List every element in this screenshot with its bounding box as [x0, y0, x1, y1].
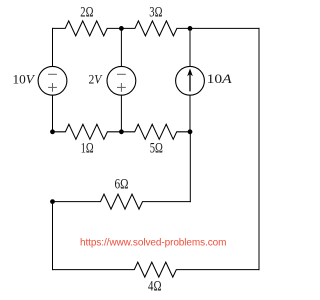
svg-text:https://www.solved-problems.co: https://www.solved-problems.com [80, 237, 227, 248]
node D mid-mid junction [119, 129, 124, 134]
resistor R6 4Ω [53, 262, 260, 295]
wire mid column upper [120, 28, 122, 66]
resistor R2 3Ω [121, 4, 190, 36]
svg-text:3Ω: 3Ω [149, 4, 162, 20]
svg-text:5Ω: 5Ω [150, 141, 163, 157]
wire left column upper [52, 28, 54, 66]
node E mid-right junction [188, 129, 193, 134]
wire left column mid [52, 95, 54, 132]
resistor R5 6Ω [53, 177, 191, 209]
wire right side [258, 28, 260, 269]
node C mid-left junction [50, 129, 55, 134]
svg-text:10A: 10A [207, 71, 232, 86]
resistor R1 2Ω [53, 4, 122, 36]
wire right column upper [189, 28, 191, 66]
voltage source V2 2V [89, 66, 136, 95]
wire mid column lower [120, 95, 122, 132]
watermark url text [80, 237, 227, 248]
svg-text:1Ω: 1Ω [81, 141, 94, 157]
voltage source V1 10V [13, 66, 67, 95]
node B top-right junction [188, 26, 193, 31]
wire right column lower [189, 95, 191, 132]
wire node to 6Ω branch [189, 132, 191, 202]
wire left column bottom [52, 202, 54, 270]
svg-text:6Ω: 6Ω [115, 177, 129, 193]
node F lower-left junction [50, 199, 55, 204]
current source I1 10A [176, 66, 232, 95]
svg-text:2V: 2V [89, 71, 104, 86]
svg-text:2Ω: 2Ω [80, 4, 93, 20]
svg-text:10V: 10V [13, 71, 36, 86]
node A top-mid junction [119, 26, 124, 31]
resistor R4 5Ω [121, 124, 190, 156]
svg-text:4Ω: 4Ω [148, 279, 162, 295]
wire top right segment [190, 27, 259, 29]
resistor R3 1Ω [53, 124, 122, 156]
